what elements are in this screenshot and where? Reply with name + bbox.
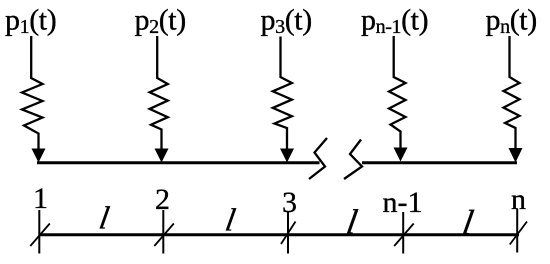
svg-text:p1(t): p1(t): [5, 4, 56, 38]
tick node n-1: [402, 212, 404, 254]
slash node n-1: [394, 224, 414, 247]
spring 1: [22, 36, 43, 150]
arrow 4: [394, 148, 408, 162]
tick node 3: [287, 212, 289, 254]
break mark left: [309, 138, 327, 179]
dimension line: [39, 233, 519, 236]
arrow 2: [155, 149, 169, 163]
svg-text:n: n: [511, 183, 526, 216]
break mark right: [344, 140, 362, 180]
slash node 1: [30, 224, 50, 247]
svg-text:pn-1(t): pn-1(t): [361, 4, 428, 38]
spring 2: [150, 36, 168, 150]
arrow 1: [32, 149, 46, 163]
arrow 5: [509, 148, 523, 163]
spring 3: [273, 37, 292, 151]
tick node 1: [38, 210, 40, 254]
svg-text:pn(t): pn(t): [486, 4, 537, 38]
arrow 3: [280, 149, 294, 163]
tick node n: [516, 209, 518, 253]
beam left segment: [37, 161, 320, 164]
slash node 2: [154, 224, 174, 247]
svg-text:p2(t): p2(t): [135, 4, 186, 38]
svg-text:l: l: [97, 200, 112, 236]
beam right segment: [362, 161, 517, 164]
slash node 3: [281, 222, 296, 245]
tick node 2: [162, 210, 164, 254]
svg-text:3: 3: [282, 186, 297, 219]
svg-text:l: l: [223, 202, 238, 238]
slash node n: [510, 222, 527, 245]
spring 4: [389, 36, 406, 149]
svg-text:1: 1: [33, 182, 48, 215]
svg-text:p3(t): p3(t): [261, 4, 312, 38]
spring 5: [504, 36, 520, 149]
